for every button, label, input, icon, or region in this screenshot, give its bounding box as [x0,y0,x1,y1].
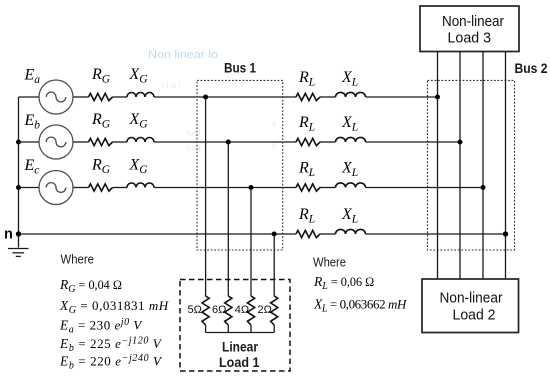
wire bus2 vertical 1 [437,52,439,280]
wire load1 resistor bottoms [206,325,275,333]
node bus2 row2 [458,140,463,145]
node bus1 tap row3 [249,185,254,190]
load resistor 5ohm [202,296,209,325]
resistor RG row2 [89,138,113,145]
resistor RL row1 [296,93,320,100]
wire bus2 vertical 3 [482,52,484,280]
svg-text:lul t: lul t [187,143,202,153]
resistor RG row3 [89,184,113,191]
svg-text:5Ω: 5Ω [188,304,202,316]
wire bus1 vertical 4 [273,234,275,296]
resistor RG row1 [89,93,113,100]
load resistor 2ohm [271,296,278,325]
node: rail-Ec junction [16,185,21,190]
wire bus2 vertical 4 [505,52,507,280]
wire bus2 vertical 2 [459,52,461,280]
inductor XG row1 [127,93,154,98]
wire row3 segments [19,187,484,189]
svg-text:Load 1: Load 1 [219,355,260,370]
node bus2 row4 [503,231,508,236]
Non-linear Load 3 box [420,6,519,52]
svg-text:lul l: lul l [187,128,201,138]
wire row2 segments [19,141,461,143]
svg-text:2Ω: 2Ω [258,304,272,316]
svg-text:Where: Where [313,256,346,270]
wire bus1 vertical 3 [250,188,252,297]
svg-text:Load 3: Load 3 [448,31,492,47]
svg-text:Non-linear: Non-linear [442,14,504,30]
Bus 1 dashed box [197,80,283,250]
node bus1 tap row4 [272,232,277,237]
inductor XL row2 [336,137,366,142]
node n junction [16,231,21,236]
svg-text:ll: ll [272,119,276,129]
wire row4 (neutral) segments [19,233,506,235]
svg-text:l l u l: l l u l [162,80,181,90]
svg-text:Linear: Linear [222,340,259,355]
ground [8,249,29,257]
node bus2 row3 [481,185,486,190]
resistor RL row4 [296,230,320,237]
source Eb [39,125,73,159]
load resistor 4ohm [247,296,254,325]
inductor XG row2 [127,138,154,143]
source Ec [39,171,73,205]
resistor RL row2 [296,138,320,145]
svg-text:Bus 2: Bus 2 [515,61,548,76]
wire bus1 vertical 1 [205,97,207,296]
wire: left rail [18,97,20,248]
wire bus1 vertical 2 [227,142,229,296]
node bus1 tap row2 [226,140,231,145]
inductor XG row3 [127,183,154,188]
svg-text:Bus 1: Bus 1 [224,61,256,76]
resistor RL row3 [296,184,320,191]
svg-text:Non linear lo: Non linear lo [148,49,218,61]
Linear Load 1 dashed box [180,280,290,372]
load resistor 6ohm [225,296,232,325]
Bus 2 dashed box [428,80,515,250]
source Ea [39,80,73,114]
svg-text:Where: Where [61,253,95,267]
inductor XL row1 [336,92,366,97]
wire row1 segments [19,96,438,98]
node bus1 tap row1 [203,95,208,100]
svg-text:n: n [4,227,13,243]
inductor XL row4 [336,229,366,234]
svg-text:4Ω: 4Ω [235,304,249,316]
inductor XL row3 [336,183,366,188]
Non-linear Load 2 box [422,279,519,333]
svg-text:Non-linear: Non-linear [440,291,503,307]
node bus2 row1 [435,95,440,100]
node: rail-Eb junction [16,140,21,145]
svg-text:6Ω: 6Ω [212,304,226,316]
svg-text:Load 2: Load 2 [453,308,496,324]
